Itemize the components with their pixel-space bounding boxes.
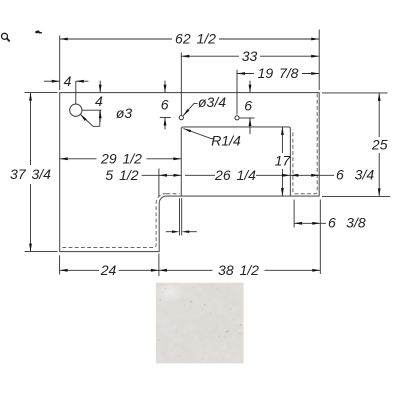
hole ø3 bbox=[70, 104, 82, 116]
25 bbox=[378, 93, 381, 101]
5 1/2 row bbox=[159, 174, 167, 177]
bottom row 24 / 38 1/2 bbox=[59, 255, 61, 274]
33 row bbox=[181, 55, 239, 57]
dimension texts bbox=[10, 31, 388, 278]
svg-text:6 3/8: 6 3/8 bbox=[328, 215, 366, 231]
small hole B ø3/4 bbox=[235, 116, 239, 120]
svg-text:26 1/4: 26 1/4 bbox=[214, 167, 256, 183]
25 vertical bbox=[322, 92, 388, 94]
ø3/4 leader bbox=[183, 104, 197, 116]
62 1/2 bbox=[60, 38, 68, 41]
62 1/2 row bbox=[60, 38, 172, 40]
4 horiz: outside arrows bbox=[52, 80, 60, 83]
svg-text:ø3: ø3 bbox=[116, 105, 133, 121]
4 horizontal dim bbox=[44, 80, 60, 82]
svg-text:6 3/4: 6 3/4 bbox=[336, 167, 374, 183]
svg-text:6: 6 bbox=[161, 96, 169, 112]
svg-text:17: 17 bbox=[275, 153, 292, 169]
6 second vertical bbox=[249, 81, 251, 93]
tiny dim bbox=[172, 230, 180, 233]
ø3/4 leader arrow bbox=[183, 109, 189, 116]
29 1/2 row bbox=[60, 158, 97, 160]
svg-text:29 1/2: 29 1/2 bbox=[100, 150, 142, 166]
svg-text:19 7/8: 19 7/8 bbox=[258, 65, 299, 81]
5 1/2 / 26 1/4 / 6 3/4 row bbox=[142, 174, 159, 176]
magnifier icon bbox=[2, 33, 10, 41]
37 3/4 bbox=[29, 93, 32, 101]
R1/4 leader bbox=[183, 129, 213, 139]
17 vertical bbox=[281, 127, 283, 153]
24 / 38 1/2 bbox=[60, 269, 68, 272]
svg-text:25: 25 bbox=[371, 137, 388, 153]
svg-text:4: 4 bbox=[95, 93, 103, 109]
6 3/8 bbox=[293, 200, 295, 228]
svg-text:ø3/4: ø3/4 bbox=[198, 94, 226, 110]
small hole A ø3/4 bbox=[179, 116, 183, 120]
dashed stub below cutout left bbox=[166, 193, 179, 195]
arrowheads bbox=[29, 38, 381, 272]
svg-text:6: 6 bbox=[244, 98, 252, 114]
dashed finished-edge line left portion bbox=[61, 194, 167, 248]
29 1/2 bbox=[60, 157, 68, 160]
svg-text:37 3/4: 37 3/4 bbox=[10, 166, 51, 182]
4 vert bbox=[99, 85, 102, 93]
svg-text:R1/4: R1/4 bbox=[211, 133, 241, 149]
19 7/8 bbox=[237, 72, 245, 75]
17 bbox=[281, 127, 284, 135]
6 second bbox=[249, 85, 252, 93]
4 vertical dim bbox=[99, 81, 101, 93]
svg-text:62 1/2: 62 1/2 bbox=[175, 31, 216, 47]
dimension graphics bbox=[25, 30, 391, 277]
6 3/8 bbox=[294, 222, 302, 225]
svg-text:5 1/2: 5 1/2 bbox=[105, 167, 138, 183]
ø3 leader arrow bbox=[80, 114, 86, 121]
cutout notch bbox=[181, 127, 290, 196]
svg-text:24: 24 bbox=[100, 262, 117, 278]
ext lines top bbox=[59, 36, 61, 91]
svg-text:38 1/2: 38 1/2 bbox=[218, 262, 259, 278]
svg-text:33: 33 bbox=[242, 48, 258, 64]
R1/4 arrow bbox=[183, 129, 191, 133]
tiny dim below part bbox=[179, 198, 181, 235]
dashed finished-edge line right portion bbox=[293, 94, 317, 194]
svg-text:4: 4 bbox=[64, 73, 72, 89]
marble swatch bbox=[155, 282, 244, 363]
part outline bbox=[60, 93, 320, 252]
37 3/4 vertical bbox=[25, 92, 58, 94]
6 first vertical bbox=[164, 81, 166, 93]
19 7/8 row bbox=[237, 73, 254, 75]
ø3 leader bbox=[81, 115, 100, 127]
small smudge icon bbox=[35, 30, 42, 34]
6 first bbox=[164, 85, 167, 93]
33 bbox=[181, 55, 189, 58]
